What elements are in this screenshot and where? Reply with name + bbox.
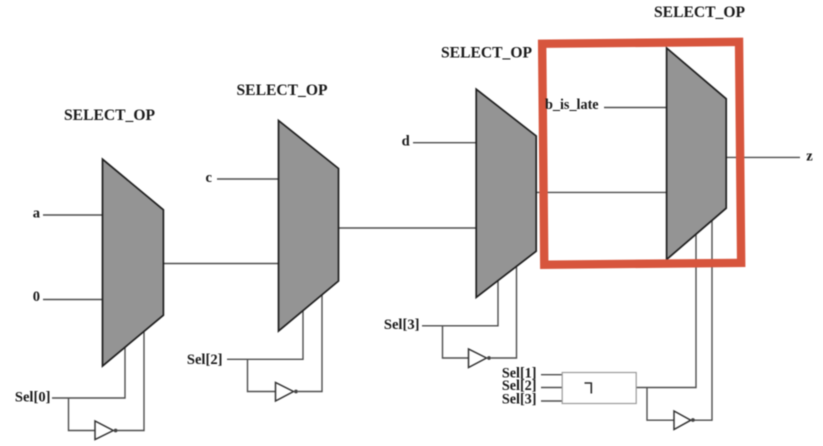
svg-text:SELECT_OP: SELECT_OP (441, 45, 532, 62)
svg-text:SELECT_OP: SELECT_OP (654, 4, 745, 21)
svg-text:Sel[3]: Sel[3] (502, 391, 537, 407)
svg-text:z: z (806, 149, 813, 165)
svg-text:SELECT_OP: SELECT_OP (64, 107, 155, 124)
svg-text:c: c (206, 170, 213, 186)
svg-text:Sel[3]: Sel[3] (384, 317, 420, 333)
svg-text:0: 0 (33, 289, 40, 305)
svg-text:a: a (33, 206, 41, 222)
svg-text:SELECT_OP: SELECT_OP (237, 82, 328, 99)
svg-text:b_is_late: b_is_late (545, 97, 599, 113)
svg-text:Sel[2]: Sel[2] (187, 352, 223, 368)
svg-text:Sel[0]: Sel[0] (15, 390, 51, 406)
svg-text:d: d (402, 134, 410, 150)
